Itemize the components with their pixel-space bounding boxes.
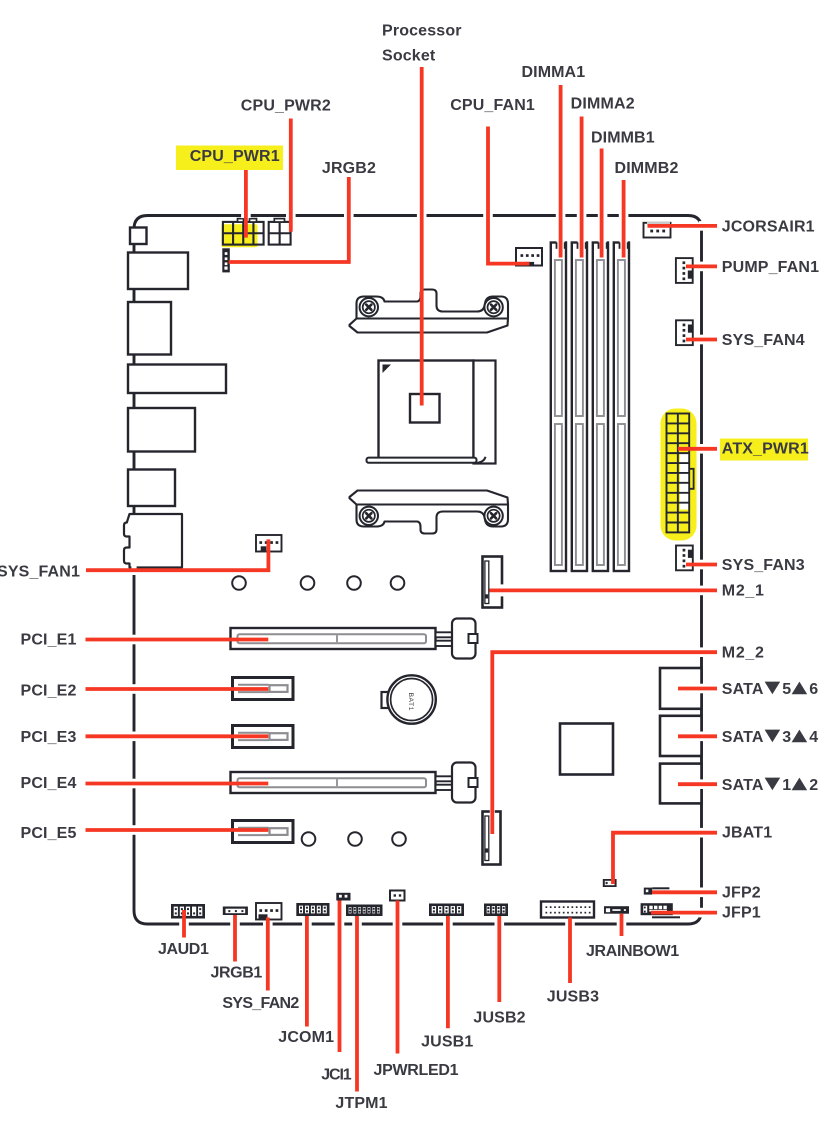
CPU_PWR1 top tabs <box>238 219 244 222</box>
CPU_PWR2 top tab <box>274 219 284 222</box>
leader DIMMA1 <box>559 85 563 258</box>
svg-text:PCI_E2: PCI_E2 <box>21 683 77 700</box>
rear IO port block 4 <box>128 365 226 394</box>
leader SATA 1/2 <box>678 782 717 786</box>
socket lever <box>367 458 477 463</box>
connector JPWRLED1 <box>390 891 405 901</box>
battery BAT1 <box>382 692 391 708</box>
DIMM slot DIMMB1 <box>593 243 608 572</box>
connector JCI1 <box>336 893 350 901</box>
board outline <box>134 216 702 925</box>
PCIe slot PCI_E1 (x16) <box>231 628 436 649</box>
processor socket body <box>379 361 474 460</box>
connector ATX_PWR1 (24-pin) <box>667 414 690 533</box>
chipset <box>560 724 613 775</box>
bracket screw right <box>484 298 502 316</box>
svg-text:CPU_PWR2: CPU_PWR2 <box>241 98 331 115</box>
PCIe slot PCI_E5 (x1) <box>233 821 294 843</box>
DIMM slot DIMMA2 <box>572 243 587 572</box>
highlight CPU_PWR1 label <box>176 146 283 171</box>
svg-text:BAT1: BAT1 <box>407 693 414 712</box>
svg-text:DIMMA1: DIMMA1 <box>522 64 586 81</box>
leader CPU_FAN1 <box>488 127 529 264</box>
leader SYS_FAN3 <box>686 563 717 567</box>
leader JRGB1 <box>233 915 237 962</box>
svg-text:JRGB2: JRGB2 <box>322 160 376 177</box>
svg-text:JCI1: JCI1 <box>321 1066 352 1083</box>
connector JAUD1 <box>171 904 205 919</box>
connector CPU_FAN1 <box>516 248 542 266</box>
PCIe slot PCI_E2 (x1) <box>233 678 294 700</box>
leader JFP1 <box>651 911 717 915</box>
svg-text:JCOM1: JCOM1 <box>278 1029 334 1046</box>
rear IO port block 3 <box>128 302 171 355</box>
connector PUMP_FAN1 <box>676 258 693 283</box>
leader JCI1 <box>338 901 342 1053</box>
leader JCORSAIR1 <box>648 224 718 228</box>
svg-text:JTPM1: JTPM1 <box>335 1095 387 1112</box>
svg-text:JPWRLED1: JPWRLED1 <box>374 1062 459 1079</box>
SATA ports 5/6 <box>660 668 702 709</box>
socket retention bracket top <box>350 290 509 333</box>
leader PCI_E2 <box>86 687 269 691</box>
connector CPU_PWR2 (4-pin, 2x2) <box>269 222 291 245</box>
highlight blob CPU_PWR1 connector <box>222 224 258 247</box>
leader JFP2 <box>652 890 717 894</box>
connector SYS_FAN3 <box>676 546 693 571</box>
svg-text:SATA: SATA <box>722 777 764 794</box>
leader PCI_E3 <box>86 734 269 738</box>
socket pin1 triangle <box>383 365 392 374</box>
svg-text:SATA: SATA <box>722 729 764 746</box>
ATX_PWR1 side clip <box>689 469 693 489</box>
leader DIMMA2 <box>580 117 584 258</box>
svg-text:JBAT1: JBAT1 <box>722 825 772 842</box>
leader SATA 5/6 <box>678 687 717 691</box>
DIMM slot DIMMA1 <box>551 243 566 572</box>
svg-text:SYS_FAN2: SYS_FAN2 <box>222 995 299 1012</box>
leader JRGB2 <box>229 177 349 262</box>
rear IO port block 2 <box>128 253 188 290</box>
highlight ATX_PWR1 label <box>720 439 808 461</box>
svg-text:DIMMA2: DIMMA2 <box>571 95 635 112</box>
leader JBAT1 <box>613 833 717 884</box>
svg-text:JUSB1: JUSB1 <box>421 1034 473 1051</box>
svg-text:Socket: Socket <box>382 48 436 65</box>
connector JUSB2 <box>484 904 508 917</box>
connector SYS_FAN2 <box>256 903 282 920</box>
leader SYS_FAN4 <box>686 338 717 342</box>
leader SYS_FAN2 <box>266 918 270 991</box>
svg-text:JCORSAIR1: JCORSAIR1 <box>722 219 815 236</box>
connector SYS_FAN4 <box>676 320 693 345</box>
svg-text:3: 3 <box>782 729 791 746</box>
rear IO port block 6 <box>128 470 175 507</box>
svg-text:ATX_PWR1: ATX_PWR1 <box>722 441 809 458</box>
leader M2_2 <box>492 652 717 834</box>
leader CPU_PWR1 <box>244 170 248 238</box>
connector JTPM1 <box>346 905 383 917</box>
svg-text:M2_2: M2_2 <box>722 645 765 662</box>
socket center square <box>410 394 440 423</box>
connector JUSB3 <box>541 902 594 918</box>
leader PUMP_FAN1 <box>686 264 717 268</box>
svg-text:1: 1 <box>782 777 791 794</box>
svg-text:SATA: SATA <box>722 681 764 698</box>
svg-text:PUMP_FAN1: PUMP_FAN1 <box>722 259 819 276</box>
rear IO audio block <box>124 514 182 568</box>
PCIe slot PCI_E4 (x16) <box>231 772 436 793</box>
edge gaps for leader lines <box>241 213 251 218</box>
connector JCORSAIR1 <box>644 223 671 238</box>
connector JCOM1 <box>296 903 329 916</box>
mounting holes bottom row <box>302 832 316 846</box>
svg-text:JRGB1: JRGB1 <box>211 965 263 982</box>
leader SYS_FAN1 <box>86 539 268 570</box>
leader JRAINBOW1 <box>620 914 624 936</box>
svg-text:DIMMB1: DIMMB1 <box>591 130 655 147</box>
svg-text:CPU_FAN1: CPU_FAN1 <box>450 97 535 114</box>
leader JAUD1 <box>182 910 186 938</box>
leader Processor Socket <box>420 67 424 406</box>
leader DIMMB2 <box>622 180 626 258</box>
leader JUSB1 <box>446 916 450 1028</box>
connector M2_2 <box>483 812 501 865</box>
svg-text:M2_1: M2_1 <box>722 583 765 600</box>
leader PCI_E5 <box>86 828 269 832</box>
connector JRGB1 <box>223 907 248 916</box>
svg-text:SYS_FAN4: SYS_FAN4 <box>722 332 805 349</box>
PCIe slot PCI_E3 (x1) <box>233 726 294 748</box>
leader DIMMB1 <box>600 149 604 258</box>
svg-text:DIMMB2: DIMMB2 <box>615 160 679 177</box>
leader PCI_E4 <box>86 782 269 786</box>
connector JBAT1 <box>603 879 617 887</box>
DIMM slot DIMMB2 <box>614 243 629 572</box>
svg-text:PCI_E1: PCI_E1 <box>21 632 77 649</box>
SATA ports 3/4 <box>660 716 702 756</box>
leader CPU_PWR2 <box>289 119 293 232</box>
leader JPWRLED1 <box>396 901 400 1054</box>
svg-text:6: 6 <box>809 681 818 698</box>
svg-text:2: 2 <box>809 777 818 794</box>
rear IO port block 5 <box>128 408 195 452</box>
connector CPU_PWR1 (8-pin, 4x2) <box>223 222 264 245</box>
connector JFP1 <box>641 903 673 915</box>
connector SYS_FAN1 <box>256 535 282 552</box>
svg-text:4: 4 <box>809 729 818 746</box>
leader PCI_E1 <box>86 638 269 642</box>
svg-text:5: 5 <box>782 681 791 698</box>
connector JRGB2 (4-pin header) <box>222 248 230 272</box>
SATA ports 1/2 <box>660 764 702 804</box>
connector JFP2 <box>644 888 652 895</box>
leader JTPM1 <box>355 916 359 1092</box>
svg-text:Processor: Processor <box>382 23 462 40</box>
connector JRAINBOW1 <box>604 906 629 914</box>
svg-text:JUSB2: JUSB2 <box>473 1009 525 1026</box>
svg-text:PCI_E3: PCI_E3 <box>21 729 77 746</box>
svg-text:JRAINBOW1: JRAINBOW1 <box>586 943 679 960</box>
leader JUSB3 <box>568 918 572 984</box>
mounting holes top row <box>232 576 246 590</box>
leader JUSB2 <box>497 916 501 1002</box>
svg-text:PCI_E4: PCI_E4 <box>21 775 77 792</box>
svg-text:CPU_PWR1: CPU_PWR1 <box>190 148 280 165</box>
leader M2_1 <box>490 589 718 593</box>
connector M2_1 <box>483 557 503 608</box>
rear IO port block 1 <box>130 228 147 245</box>
leader SATA 3/4 <box>678 734 717 738</box>
leader ATX_PWR1 <box>678 447 717 451</box>
svg-text:JFP1: JFP1 <box>722 905 761 922</box>
svg-text:SYS_FAN3: SYS_FAN3 <box>722 557 805 574</box>
svg-text:SYS_FAN1: SYS_FAN1 <box>0 564 80 581</box>
highlight blob ATX_PWR1 connector <box>661 409 697 541</box>
svg-text:JFP2: JFP2 <box>722 885 761 902</box>
svg-text:JUSB3: JUSB3 <box>547 988 599 1005</box>
leader JCOM1 <box>305 916 309 1027</box>
svg-text:PCI_E5: PCI_E5 <box>21 825 77 842</box>
socket retention bracket bottom (mirror) <box>350 491 509 534</box>
svg-text:JAUD1: JAUD1 <box>158 941 209 958</box>
connector JUSB1 <box>429 904 464 917</box>
bracket screw left <box>360 298 378 316</box>
